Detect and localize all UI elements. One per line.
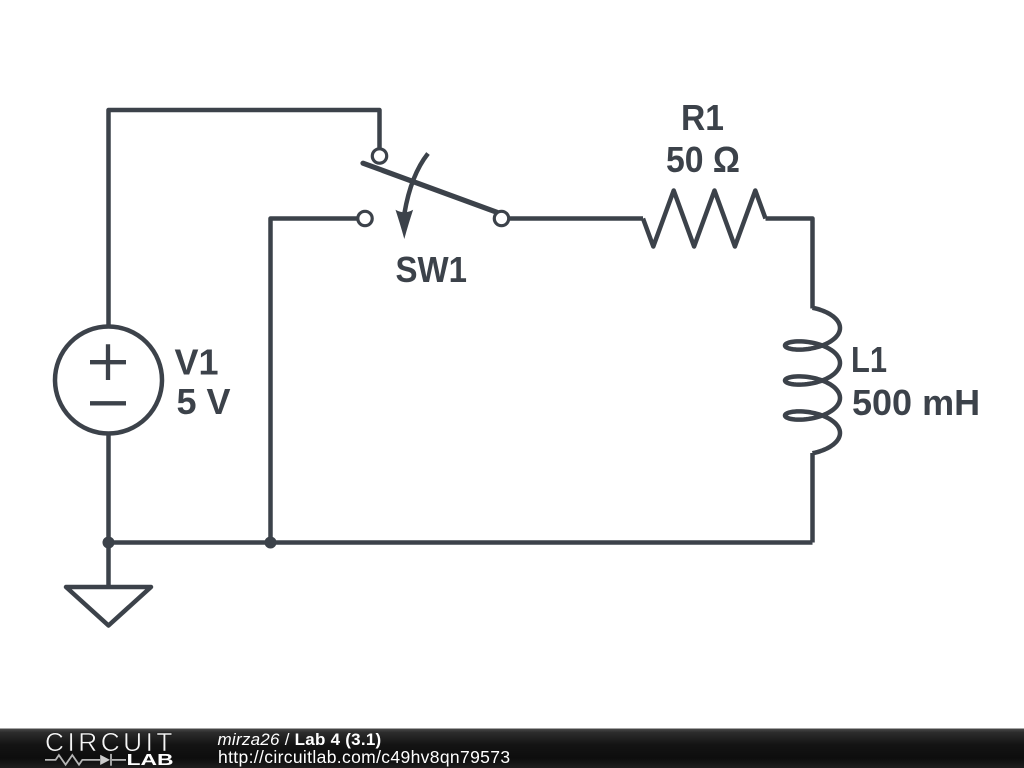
logo resistor wire: [45, 754, 126, 766]
junction node at V1/ground: [103, 537, 115, 549]
svg-text:5 V: 5 V: [177, 381, 231, 422]
svg-text:SW1: SW1: [396, 249, 468, 290]
svg-text:LAB: LAB: [127, 752, 174, 768]
logo diode triangle: [100, 755, 110, 765]
V1 minus sign: [90, 401, 126, 405]
switch SW1 lower-left terminal: [358, 211, 372, 225]
resistor R1 zigzag: [643, 191, 766, 247]
svg-text:50 Ω: 50 Ω: [666, 139, 740, 180]
V1 plus sign: [90, 344, 126, 380]
switch SW1 actuation arc: [405, 154, 429, 214]
switch SW1 top terminal: [372, 149, 386, 163]
switch SW1 blade: [363, 163, 497, 212]
wire bottom rail: [109, 540, 813, 545]
wire: inductor bottom to bottom rail: [810, 453, 815, 543]
wire: left branch from bottom rail to switch lower-left terminal: [271, 219, 366, 543]
svg-text:L1: L1: [851, 339, 887, 380]
ground triangle: [66, 587, 151, 626]
svg-text:V1: V1: [175, 342, 219, 383]
switch SW1 right terminal: [494, 211, 508, 225]
inductor L1 coil: [785, 308, 840, 454]
switch SW1 arrowhead: [396, 210, 414, 239]
svg-text:R1: R1: [681, 97, 724, 138]
ground stem: [106, 543, 111, 588]
junction node at left branch: [265, 537, 277, 549]
voltage source V1 circle: [55, 327, 162, 434]
wire: switch right terminal to resistor R1: [502, 216, 644, 221]
wire: V1 bottom to ground node: [106, 434, 111, 543]
svg-text:mirza26 / Lab 4 (3.1): mirza26 / Lab 4 (3.1): [218, 730, 382, 749]
wire top rail: V1 top to switch SW1 top terminal: [109, 110, 380, 327]
svg-text:http://circuitlab.com/c49hv8qn: http://circuitlab.com/c49hv8qn79573: [218, 747, 510, 767]
svg-text:500 mH: 500 mH: [852, 382, 980, 423]
wire: resistor to inductor L1 top: [766, 219, 813, 309]
